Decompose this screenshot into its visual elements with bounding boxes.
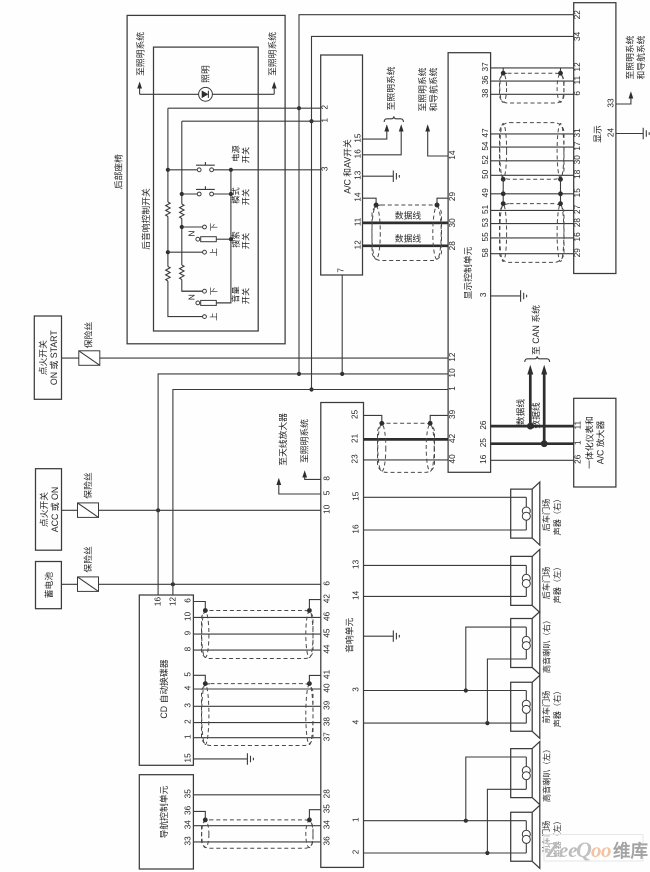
svg-text:后车门场: 后车门场 xyxy=(541,499,551,532)
wire W1 vertical rail xyxy=(168,108,203,316)
svg-text:12: 12 xyxy=(168,597,177,607)
svg-text:17: 17 xyxy=(573,141,582,151)
wire ACC feed xyxy=(99,509,321,511)
svg-text:9: 9 xyxy=(183,630,192,635)
NAV-audio wire 33-36 xyxy=(193,841,320,843)
junction rail/pin3 xyxy=(229,168,233,172)
svg-text:数据线: 数据线 xyxy=(515,399,526,426)
wire W2 vertical rail xyxy=(182,121,203,291)
svg-text:37: 37 xyxy=(481,62,490,72)
CD-audio wire 1-37 xyxy=(193,737,320,739)
shield group B xyxy=(500,123,565,180)
junction pin4 branch xyxy=(485,721,489,725)
wire shield to audio pin35 xyxy=(309,810,320,820)
svg-text:36: 36 xyxy=(481,75,490,85)
arrow to lighting system (left) xyxy=(139,87,141,94)
wire battery riser and bus xyxy=(173,390,448,596)
shield group A xyxy=(503,68,560,73)
ground (display pin24) xyxy=(643,128,649,140)
audio-DCU data line 21-42 xyxy=(364,438,449,441)
wire branch to tweeter right xyxy=(466,627,527,690)
mode switch 模式开关 xyxy=(182,193,231,195)
svg-text:34: 34 xyxy=(323,820,332,830)
svg-text:15: 15 xyxy=(183,753,192,763)
CAN branch arrow 2 xyxy=(543,374,546,444)
svg-text:31: 31 xyxy=(573,128,582,138)
svg-text:39: 39 xyxy=(448,409,457,419)
ground (audio unit) xyxy=(393,630,399,642)
svg-text:44: 44 xyxy=(323,644,332,654)
CAN data line 26-11 xyxy=(491,425,574,428)
svg-text:开关: 开关 xyxy=(241,233,251,249)
svg-text:前车门场: 前车门场 xyxy=(541,691,551,724)
svg-text:模式: 模式 xyxy=(231,187,241,203)
svg-text:53: 53 xyxy=(481,218,490,228)
svg-text:22: 22 xyxy=(573,10,582,20)
svg-text:27: 27 xyxy=(573,204,582,214)
svg-text:10: 10 xyxy=(183,611,192,621)
junction ACC bus / A/C pin7 xyxy=(340,372,344,376)
junction pin1 branch xyxy=(464,819,468,823)
svg-text:数据线: 数据线 xyxy=(395,233,422,244)
DCU-display wire 38-6 xyxy=(491,93,574,95)
svg-text:14: 14 xyxy=(354,192,363,202)
svg-text:35: 35 xyxy=(183,789,192,799)
svg-text:35: 35 xyxy=(323,804,332,814)
svg-text:13: 13 xyxy=(354,170,363,180)
svg-text:16: 16 xyxy=(154,597,163,607)
svg-text:3: 3 xyxy=(352,687,361,692)
svg-text:47: 47 xyxy=(481,128,490,138)
junction W2/search-down row xyxy=(180,225,184,229)
svg-text:蓄电池: 蓄电池 xyxy=(43,572,54,599)
junction W1/search-up row xyxy=(166,250,170,254)
shield NAV group xyxy=(202,820,314,848)
wire shield to audio pin41 xyxy=(309,675,320,683)
svg-text:12: 12 xyxy=(573,62,582,72)
svg-text:7: 7 xyxy=(337,268,346,273)
svg-text:上: 上 xyxy=(210,312,219,320)
volume switch 音量开关 contact down xyxy=(182,290,203,292)
CD-audio wire 3-39 xyxy=(193,705,320,707)
svg-text:42: 42 xyxy=(448,433,457,443)
speaker front door right 前车门场声器（右） xyxy=(511,675,540,738)
wire ACC riser and bus xyxy=(158,374,448,595)
resistor R1 xyxy=(166,202,170,217)
svg-text:16: 16 xyxy=(479,454,488,464)
svg-text:10: 10 xyxy=(323,504,332,514)
svg-text:声器（右）: 声器（右） xyxy=(552,687,562,728)
junction pin3 branch xyxy=(464,688,468,692)
svg-text:38: 38 xyxy=(481,88,490,98)
svg-text:o: o xyxy=(601,838,612,862)
svg-text:至照明系统: 至照明系统 xyxy=(385,66,396,110)
box battery 蓄电池 xyxy=(36,562,62,609)
DCU-display wire 36-11 xyxy=(491,80,574,82)
svg-text:5: 5 xyxy=(323,490,332,495)
svg-text:16: 16 xyxy=(354,149,363,159)
wire A/C pin1 to switch ladder W2 xyxy=(182,120,321,122)
resistor R2 xyxy=(166,267,170,282)
svg-text:36: 36 xyxy=(183,805,192,815)
box rear seat 后部座椅 xyxy=(127,15,285,343)
svg-text:Q: Q xyxy=(576,837,592,862)
watermark ZeeQoo xyxy=(544,835,648,863)
ground (A/C pin13) xyxy=(393,171,399,183)
ground (CD pin15) xyxy=(247,753,253,765)
svg-text:41: 41 xyxy=(323,669,332,679)
svg-text:25: 25 xyxy=(351,409,360,419)
svg-text:至照明系统: 至照明系统 xyxy=(134,32,145,76)
svg-text:搜索: 搜索 xyxy=(231,231,241,247)
svg-text:39: 39 xyxy=(323,700,332,710)
svg-text:1: 1 xyxy=(448,386,457,391)
svg-text:至照明系统: 至照明系统 xyxy=(417,67,428,111)
DCU-display wire 55-16 xyxy=(491,237,574,239)
box display 显示 xyxy=(574,3,616,274)
svg-text:8: 8 xyxy=(183,646,192,651)
svg-text:A/C 和AV开关: A/C 和AV开关 xyxy=(341,139,352,194)
DCU-display wire 52-30 xyxy=(491,160,574,162)
svg-text:34: 34 xyxy=(573,31,582,41)
svg-text:15: 15 xyxy=(354,133,363,143)
DCU pin 14 wire and arrow xyxy=(428,131,448,156)
brace CAN xyxy=(525,356,550,362)
box ignition switch ON/START 点火开关 ON 或 START xyxy=(34,316,61,399)
svg-text:8: 8 xyxy=(323,476,332,481)
svg-text:维库: 维库 xyxy=(613,841,648,861)
svg-text:一体化仪表和: 一体化仪表和 xyxy=(584,416,595,469)
svg-text:30: 30 xyxy=(448,218,457,228)
ground (DCU pin3) xyxy=(521,290,527,302)
svg-text:点火开关: 点火开关 xyxy=(37,340,48,375)
DCU-display wire 50-18 xyxy=(491,174,574,176)
search switch wiper N xyxy=(196,237,200,241)
junction W2/mode row xyxy=(180,192,184,196)
svg-text:3: 3 xyxy=(321,166,330,171)
svg-text:高音喇叭（右）: 高音喇叭（右） xyxy=(542,616,552,673)
svg-text:ACC 或 ON: ACC 或 ON xyxy=(49,487,60,532)
CD-audio wire 2-38 xyxy=(193,722,320,724)
svg-text:11: 11 xyxy=(574,420,583,429)
NAV-audio wire 35-28 xyxy=(193,794,320,796)
junction net22/pin2 wire xyxy=(297,106,301,110)
box rear audio control switch 后音响控制开关 xyxy=(154,47,259,331)
svg-text:下: 下 xyxy=(210,223,219,231)
svg-text:18: 18 xyxy=(573,169,582,179)
audio-DCU wire 23-40 xyxy=(364,459,449,461)
box ignition switch ACC/ON 点火开关 ACC 或 ON xyxy=(36,469,62,551)
wire A/C pin2 to switch ladder W1 xyxy=(168,107,321,109)
svg-text:开关: 开关 xyxy=(241,147,251,163)
wire 16-26 xyxy=(491,459,574,461)
svg-text:52: 52 xyxy=(481,155,490,165)
svg-text:至照明系统: 至照明系统 xyxy=(624,35,635,79)
svg-text:A/C 放大器: A/C 放大器 xyxy=(595,421,606,465)
svg-text:6: 6 xyxy=(573,91,582,96)
svg-text:42: 42 xyxy=(323,594,332,604)
svg-text:28: 28 xyxy=(323,789,332,799)
svg-text:后音响控制开关: 后音响控制开关 xyxy=(140,188,151,250)
wire A/C pin3 to switch right rail xyxy=(231,169,321,171)
svg-text:保险丝: 保险丝 xyxy=(82,472,93,499)
svg-text:58: 58 xyxy=(481,248,490,258)
shield audio-DCU xyxy=(378,423,435,472)
svg-text:16: 16 xyxy=(573,232,582,242)
search switch contact up xyxy=(168,251,203,253)
svg-text:29: 29 xyxy=(573,248,582,258)
lamp wire xyxy=(140,93,275,95)
svg-text:40: 40 xyxy=(323,683,332,693)
wire ON/START bus xyxy=(100,357,448,359)
svg-text:N: N xyxy=(188,294,197,300)
svg-text:14: 14 xyxy=(352,590,361,600)
svg-text:和导航系统: 和导航系统 xyxy=(635,35,646,79)
resistor R4 xyxy=(180,265,184,280)
svg-text:高音喇叭（左）: 高音喇叭（左） xyxy=(542,745,552,802)
svg-text:下: 下 xyxy=(210,287,219,295)
svg-text:30: 30 xyxy=(573,155,582,165)
svg-text:23: 23 xyxy=(351,454,360,464)
svg-text:13: 13 xyxy=(352,559,361,569)
svg-text:声器（右）: 声器（右） xyxy=(552,495,562,536)
DCU-display wire 37-12 xyxy=(491,67,574,69)
svg-text:46: 46 xyxy=(323,611,332,621)
power switch 电源开关 xyxy=(168,169,231,171)
volume switch contact up xyxy=(203,315,207,319)
svg-text:数据线: 数据线 xyxy=(395,210,422,221)
svg-text:45: 45 xyxy=(323,628,332,638)
svg-text:声器（左）: 声器（左） xyxy=(552,563,562,604)
svg-text:音响单元: 音响单元 xyxy=(344,618,355,653)
svg-text:24: 24 xyxy=(607,128,616,138)
wire battery feed xyxy=(99,583,321,585)
svg-text:12: 12 xyxy=(354,240,363,250)
lamp 照明 xyxy=(199,87,213,101)
NAV-audio wire 34-34 xyxy=(193,825,320,827)
svg-text:4: 4 xyxy=(352,719,361,724)
svg-text:12: 12 xyxy=(448,352,457,362)
svg-text:26: 26 xyxy=(574,454,583,464)
speaker tweeter left 高音喇叭（左） xyxy=(511,742,540,805)
wire net 22 (display pin22 to ACC bus) xyxy=(299,15,574,374)
svg-text:音量: 音量 xyxy=(231,286,241,302)
svg-text:导航控制单元: 导航控制单元 xyxy=(158,785,169,838)
svg-text:21: 21 xyxy=(351,433,360,443)
CD-audio wire 10-46 xyxy=(193,616,320,618)
DCU-display wire 49-15 shield drain xyxy=(491,179,574,203)
svg-text:26: 26 xyxy=(479,420,488,430)
wire branch to tweeter left low xyxy=(487,789,526,853)
svg-text:Zee: Zee xyxy=(545,838,577,862)
wire net 34 (display pin34 to battery bus) xyxy=(312,36,574,389)
svg-text:1: 1 xyxy=(321,117,330,122)
svg-text:开关: 开关 xyxy=(241,288,251,304)
CAN branch arrow 1 xyxy=(529,374,532,426)
svg-text:开关: 开关 xyxy=(241,189,251,205)
svg-text:49: 49 xyxy=(481,188,490,198)
junction rail/search N xyxy=(229,237,233,241)
CD-audio wire 4-40 xyxy=(193,688,320,690)
svg-text:36: 36 xyxy=(323,836,332,846)
svg-text:和导航系统: 和导航系统 xyxy=(428,67,439,111)
junction net22/ACC bus xyxy=(297,372,301,376)
svg-text:2: 2 xyxy=(352,849,361,854)
svg-text:25: 25 xyxy=(479,438,488,448)
audio ground wire xyxy=(364,635,394,637)
svg-text:CD 自动换碟器: CD 自动换碟器 xyxy=(158,659,169,718)
brace for pins 15/16 xyxy=(384,116,403,122)
speaker front door left 前车门场声器（左） xyxy=(511,805,540,868)
box audio unit 音响单元 xyxy=(321,403,364,868)
CD-audio wire 9-45 xyxy=(193,633,320,635)
svg-text:照明: 照明 xyxy=(200,65,210,83)
svg-text:29: 29 xyxy=(448,192,457,202)
svg-text:至照明系统: 至照明系统 xyxy=(267,32,278,76)
wire shield to audio pin42 xyxy=(309,600,320,611)
svg-text:11: 11 xyxy=(573,75,582,84)
svg-text:o: o xyxy=(591,838,602,862)
DCU-display wire 47-31 xyxy=(491,133,574,135)
shield CD group 1 xyxy=(202,611,314,659)
junction rail/mode row xyxy=(229,192,233,196)
CD-audio wire 8-44 xyxy=(193,649,320,651)
svg-text:37: 37 xyxy=(323,732,332,742)
junction net34/pin1 wire xyxy=(309,119,313,123)
junction battery feed / riser xyxy=(171,582,175,586)
svg-text:6: 6 xyxy=(183,598,192,603)
box CD autochanger CD 自动换碟器 xyxy=(139,595,193,765)
svg-text:至 CAN 系统: 至 CAN 系统 xyxy=(530,305,541,355)
svg-text:33: 33 xyxy=(183,836,192,846)
svg-text:1: 1 xyxy=(352,817,361,822)
search switch 搜索开关 contact down xyxy=(182,226,203,228)
wire right rail xyxy=(216,170,231,303)
svg-text:34: 34 xyxy=(183,820,192,830)
svg-text:2: 2 xyxy=(321,104,330,109)
svg-text:保险丝: 保险丝 xyxy=(82,546,93,573)
svg-text:6: 6 xyxy=(323,581,332,586)
svg-text:N: N xyxy=(188,230,197,236)
speaker tweeter right 高音喇叭（右） xyxy=(511,612,540,675)
arrow to lighting system (right of lamp) xyxy=(273,87,275,94)
speaker rear door left 后车门场声器（左） xyxy=(511,549,540,612)
DCU-display wire 54-17 xyxy=(491,146,574,148)
svg-text:3: 3 xyxy=(183,703,192,708)
svg-text:ON 或 START: ON 或 START xyxy=(48,330,59,386)
svg-text:至天线放大器: 至天线放大器 xyxy=(277,413,288,466)
svg-text:至照明系统: 至照明系统 xyxy=(299,419,310,463)
svg-text:40: 40 xyxy=(448,454,457,464)
svg-text:28: 28 xyxy=(448,241,457,251)
svg-text:54: 54 xyxy=(481,141,490,151)
wire branch to tweeter left xyxy=(466,757,527,821)
junction ACC feed / riser xyxy=(156,508,160,512)
svg-text:33: 33 xyxy=(607,98,616,108)
svg-text:28: 28 xyxy=(573,218,582,228)
svg-text:38: 38 xyxy=(323,717,332,727)
svg-text:1: 1 xyxy=(574,440,583,445)
svg-text:15: 15 xyxy=(352,491,361,501)
speaker rear door right 后车门场声器（右） xyxy=(511,482,540,545)
shield CD group 2 xyxy=(202,684,314,746)
fuse F3 保险丝 xyxy=(61,583,77,585)
wire branch to tweeter right low xyxy=(487,659,526,723)
DCU-display wire 53-28 xyxy=(491,223,574,225)
svg-text:点火开关: 点火开关 xyxy=(38,492,49,527)
box display control unit 显示控制单元 xyxy=(448,53,491,473)
svg-text:上: 上 xyxy=(210,248,219,256)
volume switch wiper N xyxy=(196,301,200,305)
DCU-display wire 51-27 xyxy=(491,209,574,211)
junction W1/power row xyxy=(166,168,170,172)
shield group C xyxy=(500,204,565,263)
svg-text:显示: 显示 xyxy=(593,125,603,143)
shield A/C data lines xyxy=(372,205,442,261)
box navigation control unit 导航控制单元 xyxy=(139,775,193,869)
svg-text:51: 51 xyxy=(481,204,490,214)
box integrated cluster and A/C amp 一体化仪表和A/C放大器 xyxy=(574,398,616,487)
box A/C and AV switch A/C 和AV开关 xyxy=(321,55,363,275)
svg-text:50: 50 xyxy=(481,169,490,179)
svg-text:保险丝: 保险丝 xyxy=(83,322,94,349)
svg-text:10: 10 xyxy=(448,368,457,378)
svg-text:5: 5 xyxy=(183,672,192,677)
svg-text:电源: 电源 xyxy=(231,145,241,161)
svg-text:55: 55 xyxy=(481,232,490,242)
svg-text:1: 1 xyxy=(183,734,192,739)
svg-text:2: 2 xyxy=(183,719,192,724)
svg-text:3: 3 xyxy=(479,292,488,297)
svg-text:4: 4 xyxy=(183,685,192,690)
fuse F1 保险丝 xyxy=(62,357,79,359)
svg-text:15: 15 xyxy=(573,188,582,198)
junction pin2 branch xyxy=(485,851,489,855)
wire shield to DCU pin29 xyxy=(437,198,448,205)
DCU-display wire 58-29 xyxy=(491,253,574,255)
junction net34/battery bus xyxy=(309,387,313,391)
svg-text:16: 16 xyxy=(352,524,361,534)
svg-text:11: 11 xyxy=(354,217,363,226)
fuse F2 保险丝 xyxy=(62,509,78,511)
resistor R3 xyxy=(180,204,184,219)
svg-text:后部座椅: 后部座椅 xyxy=(113,154,124,189)
svg-text:数据线: 数据线 xyxy=(530,402,541,429)
svg-text:14: 14 xyxy=(448,150,457,160)
svg-text:显示控制单元: 显示控制单元 xyxy=(462,246,473,299)
svg-text:后车门场: 后车门场 xyxy=(541,567,551,600)
CAN data line 25-1 xyxy=(491,442,574,445)
